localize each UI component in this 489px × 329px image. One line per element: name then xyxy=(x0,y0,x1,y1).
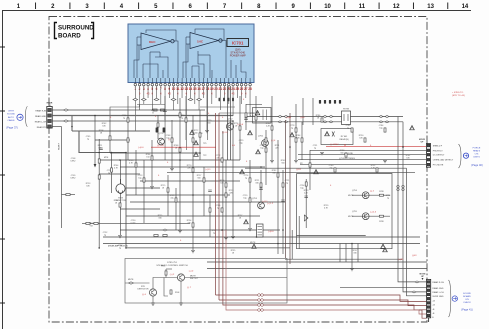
svg-text:11: 11 xyxy=(359,4,366,10)
thick select wire xyxy=(79,131,126,153)
ground symbols xyxy=(118,236,122,238)
IC701 internal wiring xyxy=(134,29,246,78)
svg-text:(+)43: (+)43 xyxy=(398,259,404,261)
svg-text:150: 150 xyxy=(146,156,149,158)
svg-text:SURR GND: SURR GND xyxy=(432,296,444,298)
svg-text:WITH: WITH xyxy=(8,111,14,113)
svg-text:REAR GND: REAR GND xyxy=(35,115,46,118)
svg-text:REAR GND: REAR GND xyxy=(432,287,443,290)
red value labels under pins xyxy=(139,92,247,96)
SURROUND BOARD label xyxy=(55,23,95,40)
transistor Q902 xyxy=(170,271,199,290)
input filter parts on rear R wire xyxy=(153,109,157,111)
svg-text:RELAY(S): RELAY(S) xyxy=(339,138,348,141)
relay sub-box xyxy=(321,129,353,145)
CN602 labels xyxy=(433,146,454,167)
STK box wiring xyxy=(125,269,287,303)
IC701 pin numbers (red) xyxy=(134,87,252,91)
svg-text:BOARD: BOARD xyxy=(58,33,81,40)
svg-text:(+)43: (+)43 xyxy=(286,117,292,119)
svg-text:330: 330 xyxy=(272,172,275,174)
svg-text:MUTE: MUTE xyxy=(128,279,134,281)
transistor Q753 xyxy=(252,198,274,209)
svg-text:(Page 37): (Page 37) xyxy=(6,126,18,130)
svg-text:R906: R906 xyxy=(161,266,165,268)
svg-text:REAR P: REAR P xyxy=(58,142,61,150)
svg-text:IC701: IC701 xyxy=(232,41,244,46)
svg-text:(-)0.5: (-)0.5 xyxy=(296,169,302,171)
transistor Q752 xyxy=(222,119,244,135)
drop to arrow xyxy=(94,116,96,167)
connector CN901 (rear input) xyxy=(47,102,53,129)
svg-text:10μ: 10μ xyxy=(166,137,169,139)
svg-text:TP2: TP2 xyxy=(203,155,206,157)
svg-text:(-)7LB MYTERES: (-)7LB MYTERES xyxy=(339,158,355,160)
svg-text:1μ: 1μ xyxy=(245,177,247,179)
left edge ticks xyxy=(0,47,5,303)
wire rear R xyxy=(52,109,205,111)
wire rear L xyxy=(52,121,233,236)
svg-text:13: 13 xyxy=(427,4,434,10)
svg-text:SW OUT: SW OUT xyxy=(190,278,199,280)
svg-text:R908: R908 xyxy=(175,292,179,294)
svg-text:O/S: O/S xyxy=(465,299,469,301)
select wire vertical xyxy=(126,153,290,248)
svg-text:(+)1.1: (+)1.1 xyxy=(205,169,211,171)
svg-text:1μ: 1μ xyxy=(286,182,288,184)
svg-text:330: 330 xyxy=(353,252,356,254)
dark vertical pair (pin 23 bus) xyxy=(227,86,229,160)
svg-text:MUTE: MUTE xyxy=(250,242,256,244)
right vertical bus wires xyxy=(340,117,427,296)
svg-text:330: 330 xyxy=(255,182,258,184)
svg-text:1μ: 1μ xyxy=(104,234,106,236)
svg-text:SOUND: SOUND xyxy=(463,293,471,295)
red measure line left (base bias) xyxy=(151,145,216,147)
svg-text:1μ: 1μ xyxy=(291,127,293,129)
svg-text:0.022: 0.022 xyxy=(131,222,136,224)
svg-text:(+) 2: (+) 2 xyxy=(170,274,175,276)
transistor Q756 xyxy=(258,136,276,147)
svg-text:(+)1.1: (+)1.1 xyxy=(262,201,268,203)
svg-text:560: 560 xyxy=(197,177,200,179)
speaker loop A xyxy=(297,174,393,249)
signal arrows on top-right buses xyxy=(278,116,282,118)
svg-text:MUTE: MUTE xyxy=(348,216,354,218)
svg-text:1μ: 1μ xyxy=(314,147,316,149)
jack symbol (STK detector) xyxy=(115,179,126,202)
svg-text:(Page 41): (Page 41) xyxy=(461,308,473,312)
maroon vertical pair right-center xyxy=(285,120,287,258)
red measure line xyxy=(326,144,427,146)
svg-text:STK5 751: STK5 751 xyxy=(167,262,178,264)
transistor Q751 xyxy=(158,133,175,145)
svg-text:HEATS: HEATS xyxy=(473,150,481,153)
IC701 power-amp block (highlighted) xyxy=(128,24,254,83)
svg-text:MTM: MTM xyxy=(104,157,109,159)
svg-text:REAR L-CH: REAR L-CH xyxy=(432,291,444,294)
svg-text:12: 12 xyxy=(393,4,400,10)
svg-text:14: 14 xyxy=(462,4,469,10)
svg-text:DETECTOR: DETECTOR xyxy=(138,289,150,291)
svg-text:R/2W: R/2W xyxy=(379,191,384,193)
svg-text:OVERLOAD DETECT: OVERLOAD DETECT xyxy=(433,159,454,162)
board outline dash-dot xyxy=(49,17,427,323)
bead symbols on maroon bus xyxy=(258,294,261,297)
thick drop xyxy=(71,116,73,132)
svg-text:PTC MUTE: PTC MUTE xyxy=(433,165,444,167)
mid-left vertical x111 xyxy=(111,153,113,194)
ruler ticks xyxy=(36,3,448,10)
select elbow xyxy=(72,130,150,132)
IC701 pins xyxy=(134,78,251,86)
connector CN903 (rear out) xyxy=(420,274,431,318)
capacitors xyxy=(99,148,103,150)
svg-text:1μ: 1μ xyxy=(347,127,349,129)
svg-text:SHIELD P: SHIELD P xyxy=(433,146,443,148)
svg-text:REAR R-IN: REAR R-IN xyxy=(35,110,46,113)
svg-text:560: 560 xyxy=(281,162,284,164)
svg-text:(+) 4.3: (+) 4.3 xyxy=(370,212,377,214)
svg-text:(+)0.6: (+)0.6 xyxy=(268,231,274,233)
svg-text:47μ: 47μ xyxy=(216,157,219,159)
frame border top xyxy=(2,10,471,12)
svg-text:R/2W: R/2W xyxy=(379,221,384,223)
svg-text:10μ: 10μ xyxy=(260,147,263,149)
op-amp B (right triangle) xyxy=(190,33,222,49)
beads on right bus xyxy=(397,185,400,188)
svg-text:(+)0.6: (+)0.6 xyxy=(138,147,144,149)
svg-text:560: 560 xyxy=(340,152,343,154)
speaker loop stubs xyxy=(297,234,366,236)
svg-text:10μ: 10μ xyxy=(239,142,242,144)
central mesh horizontal wires xyxy=(62,117,428,269)
svg-text:PROTECT: PROTECT xyxy=(433,150,444,152)
svg-text:47μ: 47μ xyxy=(170,197,173,199)
bias box xyxy=(253,108,272,124)
svg-text:10μ: 10μ xyxy=(379,127,382,129)
wire rear gnd (thick bus) xyxy=(52,115,233,117)
loop left column parts xyxy=(305,182,307,186)
svg-text:TP5: TP5 xyxy=(203,143,206,145)
svg-text:CHECK: CHECK xyxy=(463,302,471,304)
STK auto control switch box xyxy=(125,259,287,304)
svg-text:(-) 52MV: (-) 52MV xyxy=(330,144,339,146)
arrows into bottom connector xyxy=(415,281,419,283)
red voltage labels xyxy=(110,99,417,261)
svg-text:10: 10 xyxy=(324,4,331,10)
svg-text:SOUND: SOUND xyxy=(7,114,15,116)
warning marks xyxy=(314,170,319,174)
svg-text:RY7W: RY7W xyxy=(343,109,349,111)
svg-text:(STK TO +R): (STK TO +R) xyxy=(452,95,465,97)
op-amp A (left triangle) xyxy=(141,33,174,50)
CN903 labels xyxy=(432,281,444,319)
svg-text:BOARD: BOARD xyxy=(463,295,471,298)
transistor Q755 xyxy=(348,211,384,223)
maroon vertical pair center xyxy=(215,113,217,295)
svg-text:POWER AMP: POWER AMP xyxy=(230,54,246,58)
CN903 page ref (blue) xyxy=(449,280,473,317)
svg-text:1μ: 1μ xyxy=(181,117,183,119)
svg-text:560: 560 xyxy=(194,132,197,134)
wire rear RY xyxy=(52,126,61,128)
under-pin bus jogs xyxy=(110,105,262,121)
svg-text:MUTE: MUTE xyxy=(348,195,354,197)
svg-text:1HC: 1HC xyxy=(197,40,204,44)
CN602 page ref (blue) xyxy=(459,144,483,168)
svg-text:(-) 0.6: (-) 0.6 xyxy=(222,132,228,134)
svg-text:10μ: 10μ xyxy=(138,177,141,179)
svg-text:10μ: 10μ xyxy=(300,187,303,189)
CN903 ground stub xyxy=(428,318,430,322)
frame border left xyxy=(2,11,4,329)
signal arrows under pins xyxy=(133,98,138,100)
svg-text:(+) 1.2: (+) 1.2 xyxy=(267,203,274,205)
electrolytic caps cluster xyxy=(219,98,235,101)
svg-text:1μ: 1μ xyxy=(87,138,89,140)
svg-text:47μ: 47μ xyxy=(329,167,332,169)
svg-text:Y58: Y58 xyxy=(89,225,92,227)
svg-text:DC DETECT: DC DETECT xyxy=(433,155,446,157)
svg-text:(+) 0: (+) 0 xyxy=(189,271,194,273)
central mesh vertical wires xyxy=(110,86,358,268)
coil parts above Q751 xyxy=(156,128,166,133)
svg-text:DHC: DHC xyxy=(149,40,156,44)
svg-text:6.8K2: 6.8K2 xyxy=(71,160,76,162)
resistors xyxy=(109,136,111,140)
svg-text:1μ: 1μ xyxy=(217,207,219,209)
junction dots xyxy=(94,115,96,117)
svg-text:REAR R-CH: REAR R-CH xyxy=(432,281,444,284)
svg-text:CABLE: CABLE xyxy=(7,119,15,122)
svg-text:10μ: 10μ xyxy=(243,197,246,199)
left bracket + page ref (blue) xyxy=(6,107,27,130)
svg-text:O/S: O/S xyxy=(475,154,479,156)
mute line parts xyxy=(163,229,167,231)
svg-text:SURROUND: SURROUND xyxy=(58,25,94,32)
transistor Q754 xyxy=(348,190,384,199)
svg-text:560: 560 xyxy=(207,122,210,124)
svg-text:1μ: 1μ xyxy=(123,117,125,119)
IC701 reference box xyxy=(227,39,249,58)
maroon bottom bus xyxy=(216,230,427,318)
svg-text:1μ: 1μ xyxy=(213,232,215,234)
svg-text:UNITS: UNITS xyxy=(473,157,480,159)
connector CN901 labels xyxy=(35,110,47,130)
svg-text:6.8K2: 6.8K2 xyxy=(71,177,76,179)
svg-text:REAR L-CH: REAR L-CH xyxy=(35,121,47,124)
svg-text:(Page 40): (Page 40) xyxy=(471,163,483,167)
svg-text:AUTO: AUTO xyxy=(8,116,14,119)
svg-text:RY 601: RY 601 xyxy=(341,136,348,138)
ruler numbers xyxy=(17,4,469,10)
svg-text:REAR RY: REAR RY xyxy=(37,126,47,129)
svg-text:1μ: 1μ xyxy=(108,172,110,174)
svg-text:+ STKS TO: + STKS TO xyxy=(452,92,463,94)
svg-text:FORCE: FORCE xyxy=(473,148,481,150)
connector CN602 (protect) xyxy=(419,139,431,167)
svg-text:1μ: 1μ xyxy=(119,247,121,249)
transistor Q901 xyxy=(138,286,157,296)
IC array (hatched) xyxy=(250,224,263,244)
relay RY601 xyxy=(342,109,351,125)
pin drop wires xyxy=(135,86,250,160)
mid-left vertical x99 xyxy=(98,139,100,248)
left long vertical wire xyxy=(61,127,63,229)
svg-text:330: 330 xyxy=(158,217,161,219)
svg-text:1μ: 1μ xyxy=(387,197,389,199)
